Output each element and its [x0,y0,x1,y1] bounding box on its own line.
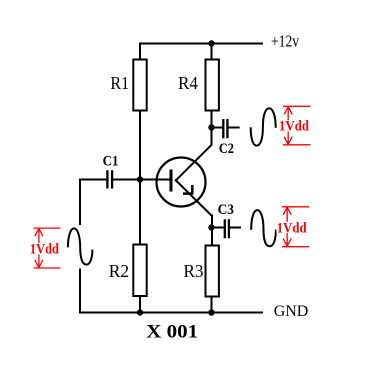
capacitor C3 [225,219,229,238]
svg-text:R2: R2 [109,261,129,281]
sine source C3 output [251,210,276,246]
svg-text:+12v: +12v [271,32,299,51]
wire input horizontal to C1 [79,179,106,181]
resistor R3 [206,246,219,297]
wire R1 top lead [139,43,141,60]
node junction bottom right [208,309,214,315]
wire left branch R1-R2 [139,111,141,245]
svg-text:X 001: X 001 [146,321,198,342]
wire R3 bottom lead [211,297,213,313]
wire top rail +12v [139,43,263,45]
label 1Vdd input [30,243,60,254]
capacitor C1 [107,170,112,188]
node junction C3 [208,224,214,230]
wire C3 left [212,227,224,229]
red dimension arrows input [34,228,61,268]
resistor R2 [133,245,146,297]
wire C2 right [229,127,240,129]
sine source input [68,228,93,264]
node junction bottom left [137,309,143,315]
wire collector diagonal [175,145,212,182]
capacitor C2 [223,119,227,138]
node junction top rail [208,40,214,46]
node junction C2 [208,124,214,130]
svg-text:1Vdd: 1Vdd [279,119,309,135]
svg-text:C2: C2 [219,140,234,156]
node junction base [137,176,143,182]
wire C1 to base junction [113,179,171,181]
label 1Vdd C3 output [276,222,307,233]
svg-text:C3: C3 [218,201,234,218]
svg-text:R1: R1 [110,73,129,93]
resistor R1 [133,60,146,111]
red dimension arrows C3 output [282,207,309,247]
svg-text:GND: GND [274,303,309,320]
red dimension arrows C2 output [283,106,311,145]
resistor R4 [206,60,219,111]
wire bottom rail GND [79,312,263,314]
wire R4 bottom lead [211,111,213,146]
svg-text:1Vdd: 1Vdd [277,220,307,236]
wire input vertical upper [79,179,81,226]
wire R2 bottom lead [139,296,141,313]
transistor Q1 circle [157,158,206,207]
label 1Vdd C2 output [279,120,310,131]
wire emitter vertical [211,215,213,247]
wire C3 right [230,227,242,229]
wire emitter diagonal [175,180,212,217]
sine source C2 output [251,108,276,145]
svg-text:R3: R3 [184,260,204,281]
transistor emitter arrow [183,185,193,194]
transistor base bar [170,170,173,192]
svg-text:C1: C1 [103,153,119,170]
wire R4 top lead [211,43,213,60]
svg-text:R4: R4 [178,73,198,94]
wire C2 left [212,127,223,129]
wire input vertical lower [79,269,81,314]
svg-text:1Vdd: 1Vdd [30,241,59,257]
